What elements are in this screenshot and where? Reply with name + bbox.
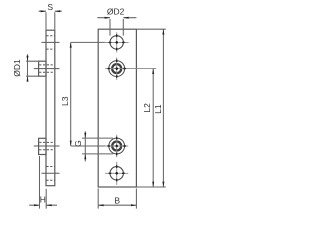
svg-text:B: B <box>114 195 120 205</box>
svg-text:H: H <box>40 194 46 204</box>
svg-text:ØD1: ØD1 <box>12 59 22 77</box>
svg-text:ØD2: ØD2 <box>107 7 125 17</box>
svg-text:L1: L1 <box>153 104 163 114</box>
svg-text:L3: L3 <box>60 96 70 106</box>
svg-text:S: S <box>47 2 53 12</box>
svg-text:G: G <box>73 140 83 147</box>
svg-text:L2: L2 <box>142 103 152 113</box>
